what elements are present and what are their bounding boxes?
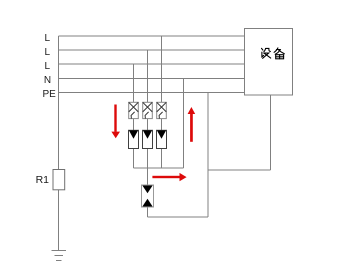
wire: bottom horizontal to spark gap — [148, 216, 209, 218]
wire: line L2 — [59, 49, 245, 51]
MOV module symbol 3 — [157, 130, 167, 148]
wire: drop from equipment box bottom — [270, 95, 272, 170]
label 设备 (drawn glyphs) — [262, 48, 285, 59]
ground symbol — [52, 251, 67, 261]
equipment box 设备 — [245, 29, 293, 96]
wire: common bus under SPDs — [134, 167, 184, 169]
red arrow down (current into SPDs) — [111, 105, 120, 139]
red arrow right (through spark gap path) — [152, 173, 186, 181]
wire: left vertical supply bus — [58, 36, 60, 251]
svg-text:L: L — [45, 61, 51, 72]
svg-text:L: L — [45, 33, 51, 44]
MOV module symbol 2 — [143, 130, 153, 148]
spark gap N-PE arrester — [142, 185, 154, 217]
wire: N drop vertical — [183, 79, 185, 169]
MOV module symbol 1 — [129, 130, 139, 148]
wire: spark gap bottom lead — [147, 207, 149, 217]
SPD branch 3 wire from L1 — [161, 36, 163, 168]
SPD disconnector symbol 3 — [157, 102, 167, 118]
svg-text:R1: R1 — [36, 174, 50, 186]
SPD disconnector symbol 2 — [143, 102, 153, 118]
wire: line L3 — [59, 63, 245, 65]
wire: line L1 — [59, 35, 245, 37]
wire: PE drop vertical — [207, 93, 209, 218]
wire: line PE — [59, 92, 245, 94]
red arrow up (current back) — [188, 107, 196, 142]
svg-text:N: N — [44, 75, 51, 86]
svg-text:L: L — [45, 47, 51, 58]
wire: line N — [59, 78, 245, 80]
SPD disconnector symbol 1 — [129, 102, 139, 118]
SPD branch 1 wire from L3 — [133, 64, 135, 168]
glyph 备 — [274, 48, 278, 52]
svg-text:PE: PE — [43, 89, 57, 100]
wire: horizontal from box drop to PE drop — [208, 169, 271, 171]
SPD branch 2 wire from L2 — [147, 50, 149, 185]
resistor R1 — [53, 170, 65, 190]
glyph 设 — [262, 48, 263, 50]
